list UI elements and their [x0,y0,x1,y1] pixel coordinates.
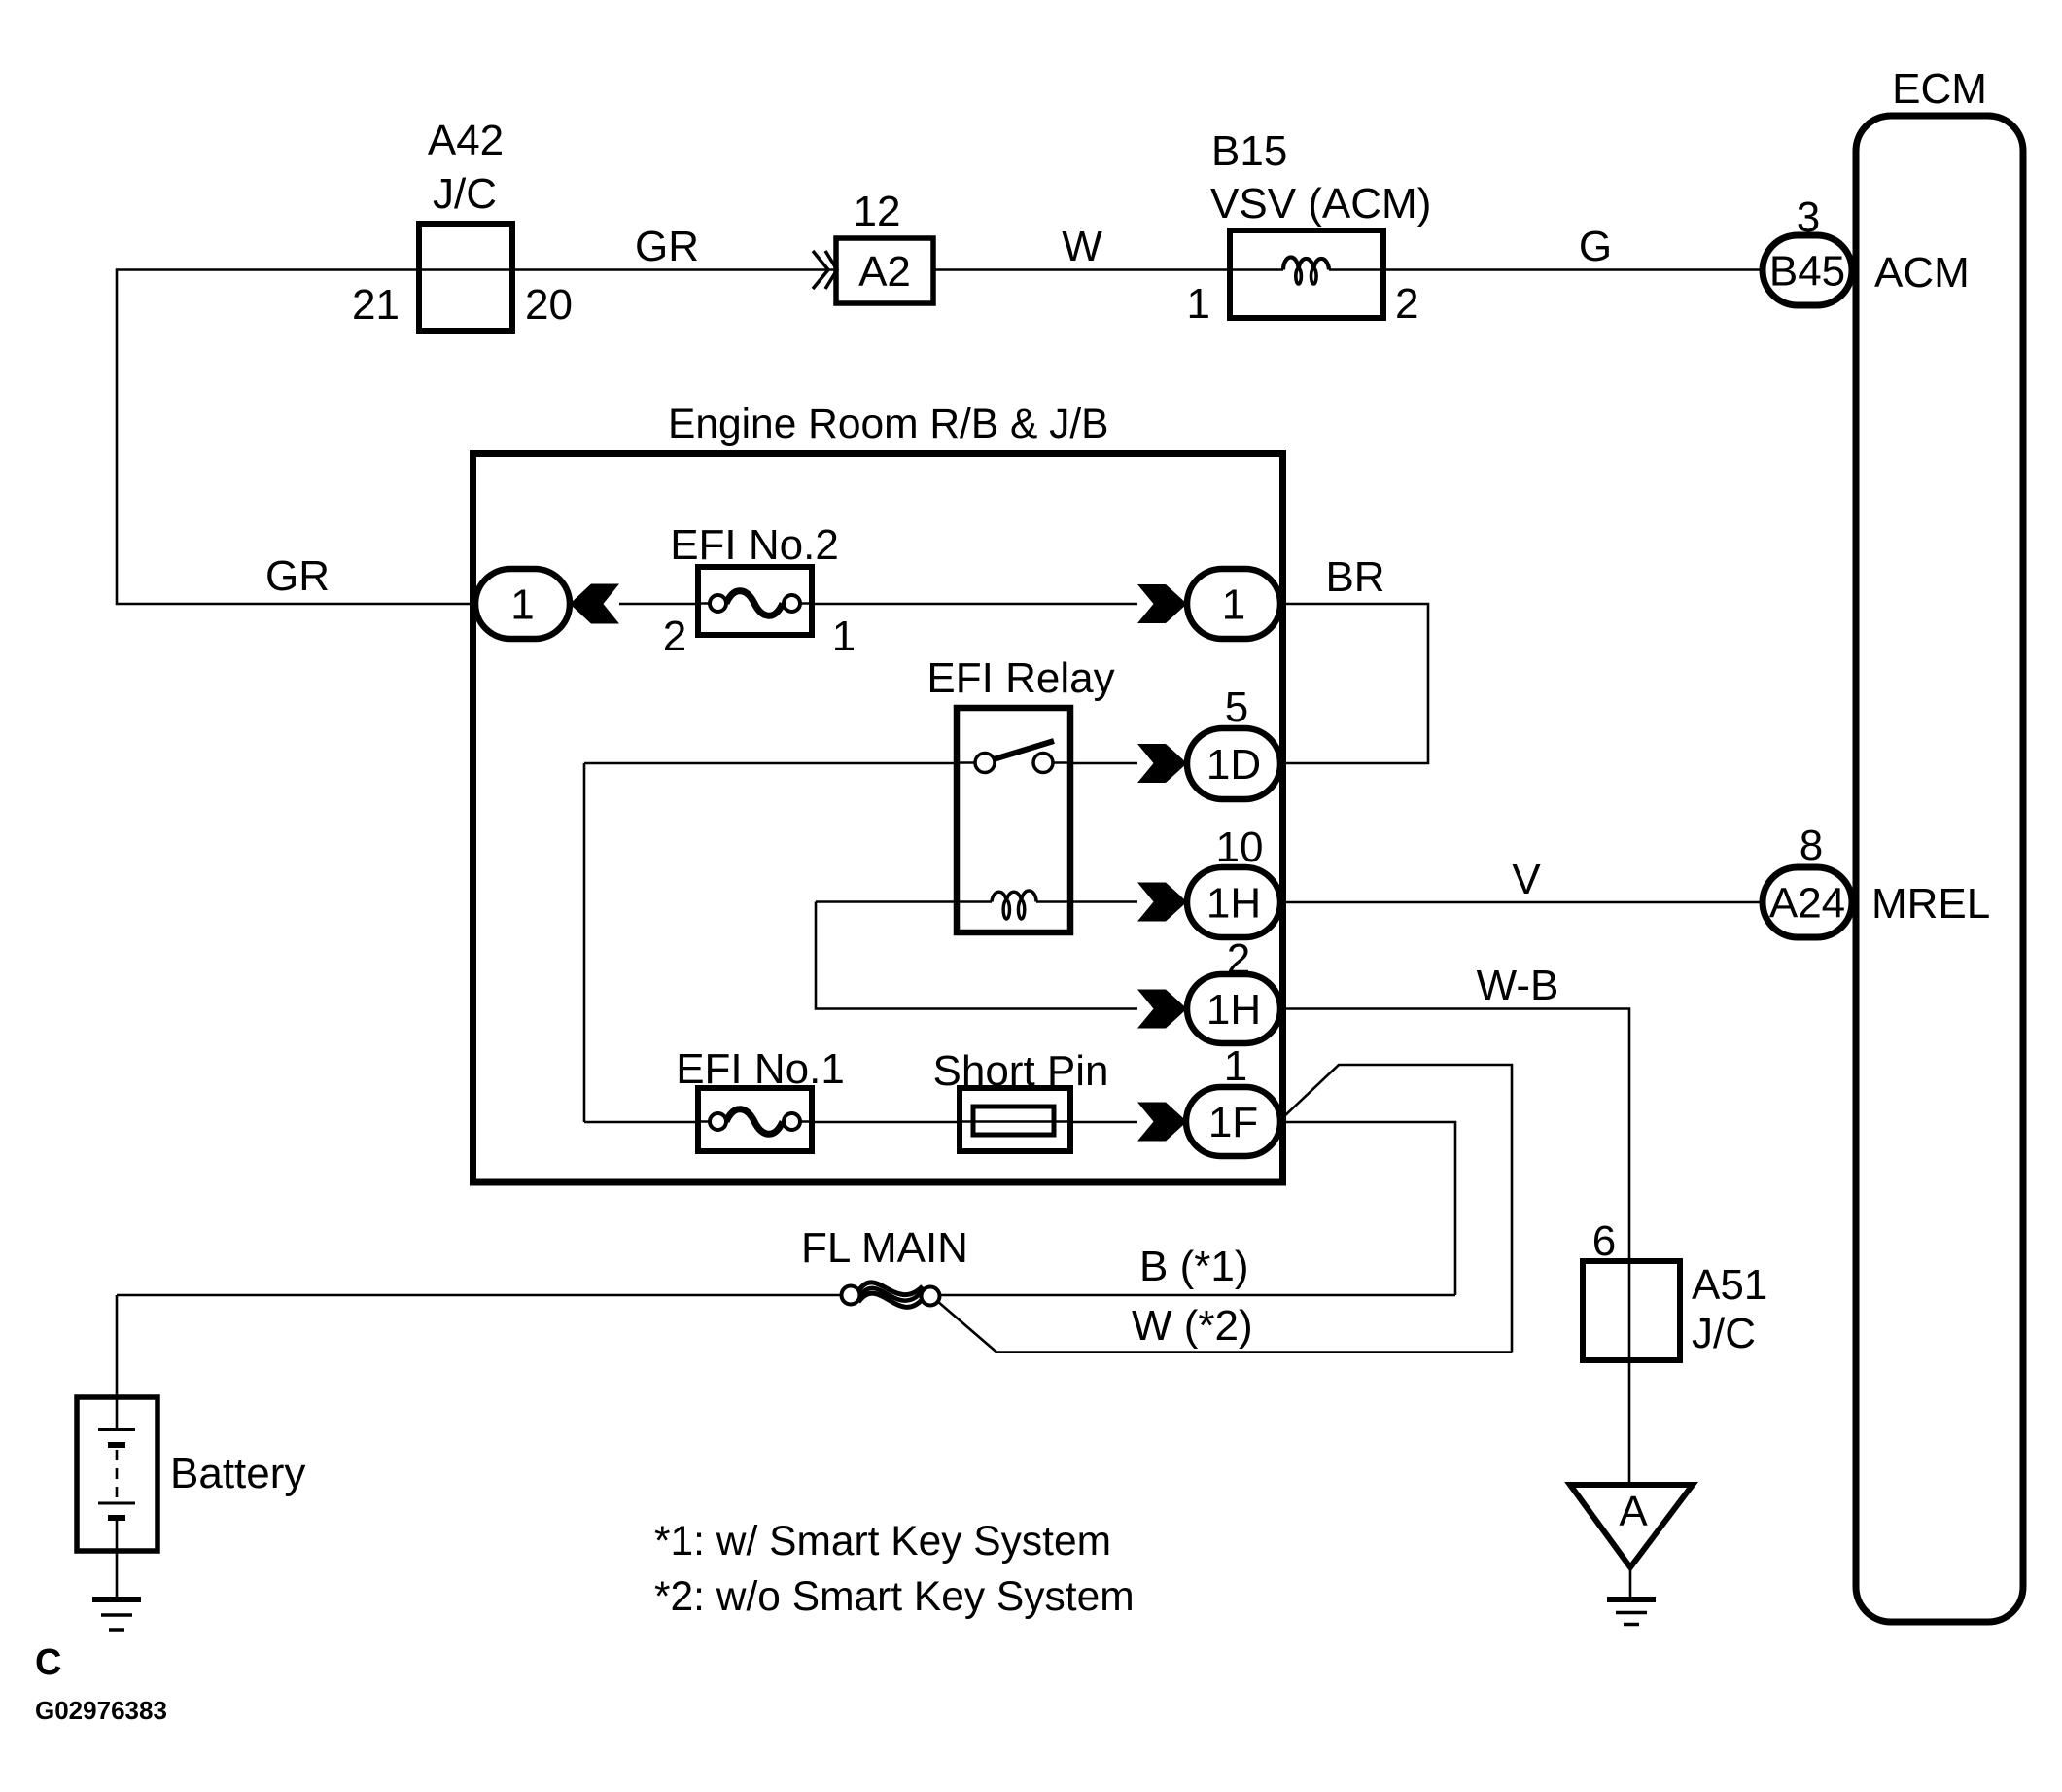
svg-text:1: 1 [1187,280,1210,328]
svg-text:A2: A2 [858,248,911,296]
svg-text:EFI Relay: EFI Relay [926,654,1114,702]
svg-text:2: 2 [1395,280,1418,328]
svg-text:J/C: J/C [1692,1310,1756,1357]
svg-text:A42: A42 [428,117,504,164]
svg-text:W: W [1062,223,1102,270]
svg-text:1: 1 [510,581,534,629]
svg-text:20: 20 [525,281,573,329]
svg-text:G: G [1579,223,1612,270]
svg-text:5: 5 [1225,684,1248,731]
svg-text:G02976383: G02976383 [35,1696,167,1725]
svg-text:ACM: ACM [1874,249,1970,297]
svg-text:GR: GR [265,552,330,600]
svg-text:EFI No.1: EFI No.1 [676,1045,845,1093]
svg-text:8: 8 [1800,822,1823,869]
svg-text:10: 10 [1216,824,1264,871]
svg-text:C: C [35,1642,61,1683]
svg-text:W (*2): W (*2) [1132,1302,1253,1350]
svg-text:12: 12 [854,188,901,235]
svg-text:6: 6 [1592,1217,1616,1265]
svg-text:ECM: ECM [1892,65,1987,113]
svg-text:1: 1 [1224,1042,1247,1090]
svg-text:A: A [1619,1488,1648,1535]
svg-text:MREL: MREL [1871,880,1990,928]
svg-text:A51: A51 [1692,1261,1767,1309]
svg-text:A24: A24 [1769,880,1845,928]
svg-text:V: V [1512,856,1541,903]
svg-text:1H: 1H [1206,880,1261,928]
svg-text:*2: w/o Smart Key System: *2: w/o Smart Key System [654,1574,1135,1620]
svg-text:B45: B45 [1769,248,1845,296]
svg-text:21: 21 [352,281,400,329]
svg-text:2: 2 [1227,935,1250,983]
svg-text:FL MAIN: FL MAIN [801,1224,968,1272]
svg-text:2: 2 [663,613,686,660]
svg-text:1F: 1F [1208,1099,1258,1146]
svg-text:3: 3 [1797,193,1820,241]
svg-text:W-B: W-B [1477,962,1559,1009]
svg-text:GR: GR [635,223,699,270]
svg-text:1H: 1H [1206,986,1261,1034]
svg-text:BR: BR [1325,553,1384,601]
svg-text:1: 1 [1222,581,1245,629]
svg-text:B15: B15 [1211,127,1287,175]
svg-text:B (*1): B (*1) [1139,1243,1248,1290]
svg-text:J/C: J/C [433,170,497,218]
svg-text:1D: 1D [1206,741,1261,789]
svg-text:Short Pin: Short Pin [933,1047,1109,1095]
svg-text:VSV (ACM): VSV (ACM) [1210,180,1431,228]
svg-text:*1: w/ Smart Key System: *1: w/ Smart Key System [654,1519,1111,1564]
svg-text:Battery: Battery [170,1450,305,1497]
svg-text:Engine Room R/B & J/B: Engine Room R/B & J/B [668,402,1109,447]
svg-text:1: 1 [832,613,856,660]
svg-text:EFI No.2: EFI No.2 [670,521,839,569]
